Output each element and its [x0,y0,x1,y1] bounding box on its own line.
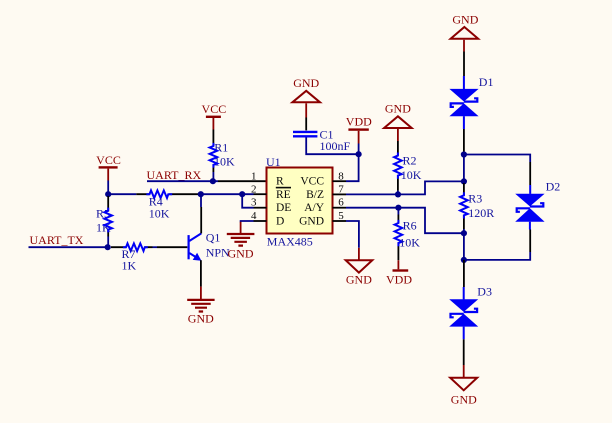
wire pin4 to ground [241,221,254,222]
node D1 / D2 top junction [461,151,467,157]
wire VDD to node [358,144,360,155]
IC U1 MAX485 body [266,155,333,249]
svg-text:R3: R3 [468,191,482,205]
svg-text:VCC: VCC [202,102,227,116]
wire node to D2 top [464,155,530,163]
svg-text:Q1: Q1 [206,231,221,245]
wire D2 top pin [529,162,531,185]
svg-text:GND: GND [188,311,214,325]
svg-text:U1: U1 [266,155,281,169]
resistor R5 1K [96,196,112,247]
svg-text:GND: GND [299,216,324,228]
resistor R6 10K [395,208,421,261]
node R1 / UART_RX junction [210,178,216,184]
svg-text:1: 1 [251,170,257,182]
diode D3 (bidirectional TVS) [449,284,492,339]
svg-text:100nF: 100nF [320,139,351,153]
ground GND (above R2) [384,102,412,141]
pin 6 [333,197,347,209]
wire D3 to GND [463,339,465,365]
node R3 bottom / pin6 junction [461,230,467,236]
svg-text:B/Z: B/Z [306,189,324,201]
wire D2 bottom to node [529,230,531,253]
svg-text:NPN: NPN [206,246,230,260]
svg-text:VDD: VDD [346,115,372,129]
ground GND (pin 4, earth symbol) [227,222,255,261]
node UART_TX / R5 / R7 junction [105,244,111,250]
svg-text:RE: RE [276,189,291,201]
resistor R4 10K [111,190,199,220]
pin 7 [333,183,347,195]
svg-text:GND: GND [228,246,254,260]
pin 5 [333,210,347,222]
wire node to D3 [463,260,465,287]
svg-text:A/Y: A/Y [304,202,325,214]
svg-text:5: 5 [338,210,344,222]
svg-text:VDD: VDD [386,273,412,287]
wire VCC to node [107,181,109,195]
svg-text:GND: GND [346,272,372,286]
wire UART_TX [29,246,108,248]
wire pin6 net [346,208,464,234]
wire GND to D1 [463,52,465,77]
svg-text:10K: 10K [149,207,170,221]
ground GND (Q1 emitter, earth symbol) [187,287,214,326]
wire node to pin2 [203,193,254,195]
svg-text:R1: R1 [214,140,228,154]
power port VDD (bottom) [386,260,412,286]
wire pin8 net [346,154,359,181]
ground GND (above C1) [292,76,320,117]
resistor R2 10K [394,141,422,194]
diode D1 (bidirectional TVS) [449,75,493,129]
svg-text:R6: R6 [403,219,417,233]
svg-text:D1: D1 [479,75,494,89]
wire R3 bottom to D3 node [463,233,465,260]
pin 4 [251,210,267,222]
wire UART_RX to pin1 [147,180,218,182]
svg-text:D: D [276,216,284,228]
diode D2 (bidirectional TVS) [515,180,560,230]
power port VDD (top) [346,115,372,144]
svg-text:10K: 10K [399,236,420,250]
svg-text:MAX485: MAX485 [267,234,313,248]
svg-text:DE: DE [276,202,291,214]
transistor Q1 NPN [188,194,231,286]
node R2 on pin7 net [395,191,401,197]
power port VCC (R1) [202,102,227,130]
wire R7 to Q1 base [157,246,187,248]
ground GND (below D3) [450,365,477,406]
capacitor C1 100nF [293,118,351,153]
node R4 / Q1 collector / RE-DE wire junction [198,191,204,197]
svg-text:10K: 10K [401,168,422,182]
wire D1 to node [463,129,465,152]
pin 8 [333,170,347,182]
svg-text:GND: GND [452,13,478,27]
svg-text:1K: 1K [122,259,137,273]
svg-text:UART_RX: UART_RX [147,168,202,182]
svg-text:4: 4 [251,210,257,222]
power port VCC (left) [96,153,121,180]
ground GND (pin 5) [346,248,373,286]
svg-text:GND: GND [385,102,411,116]
pin 3 [251,197,267,209]
svg-text:120R: 120R [468,206,494,220]
node R3 top / pin7 junction [461,178,467,184]
svg-text:VCC: VCC [300,176,324,188]
node pin2/pin3 tie [239,191,245,197]
ground GND (above D1) [451,13,479,52]
svg-text:GND: GND [451,392,477,406]
node VDD / C1 / pin8 junction [356,151,362,157]
wire pin7 net [346,181,464,194]
node D3 / D2 bottom junction [461,257,467,263]
resistor R3 120R [460,155,494,234]
wire pin3 riser [242,194,253,208]
wire C1 to VDD node [306,138,358,155]
pin 2 [251,183,267,195]
svg-text:R: R [276,176,284,188]
resistor R1 10K [210,130,235,182]
wire pin5 net [346,221,359,248]
svg-text:D2: D2 [546,180,561,194]
svg-text:R2: R2 [403,153,417,167]
svg-text:GND: GND [293,76,319,90]
svg-text:UART_TX: UART_TX [30,233,84,247]
node R6 on pin6 net [395,205,401,211]
svg-text:VCC: VCC [96,153,121,167]
svg-text:D3: D3 [477,284,492,298]
node VCC / R4 / R5 junction [105,191,111,197]
resistor R7 1K [111,243,157,272]
